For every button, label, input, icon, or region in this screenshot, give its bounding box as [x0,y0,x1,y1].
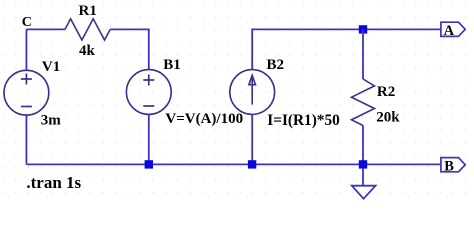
wire: R2 top lead [362,29,364,79]
junction at B2 bottom [248,160,256,168]
svg-text:4k: 4k [79,43,96,59]
V1 minus sign [21,106,32,108]
B1 plus sign [143,75,154,86]
svg-text:B1: B1 [163,57,181,73]
V1 plus sign [21,74,32,85]
behavioral source B1 circle [126,70,171,115]
svg-text:V1: V1 [42,59,60,75]
svg-text:.tran 1s: .tran 1s [26,173,81,192]
svg-text:3m: 3m [41,113,62,129]
net flag B [441,158,465,172]
junction at R2 bottom / ground [359,160,367,168]
svg-text:B: B [444,158,454,174]
junction at R2 top [359,25,367,33]
svg-text:B2: B2 [267,57,285,73]
wire: B1 bottom lead [148,114,150,164]
wire: B2 top lead up and right to A flag [252,29,441,69]
svg-text:V=V(A)/100: V=V(A)/100 [165,111,243,127]
svg-text:R1: R1 [79,3,97,19]
junction at B1 bottom [145,160,153,168]
wire: R2 bottom lead [362,126,364,165]
resistor R2 zigzag body [352,79,375,126]
svg-text:I=I(R1)*50: I=I(R1)*50 [267,112,340,129]
behavioral current source B2 circle [230,70,275,115]
svg-text:R2: R2 [377,84,395,100]
wire: ground lead [362,169,364,186]
wire: bottom rail [26,163,441,165]
resistor R1 zigzag body [65,19,110,40]
ground symbol [352,186,376,199]
svg-text:20k: 20k [376,109,400,125]
wire: B2 bottom lead [251,114,253,164]
B2 arrow [249,75,256,104]
svg-text:C: C [22,15,32,30]
svg-text:A: A [444,23,455,39]
net flag A [441,22,465,36]
B1 minus sign [143,105,154,107]
wire: top-left net C horizontal run [26,28,65,30]
wire: R1 right to B1 top corner [110,29,149,69]
voltage source V1 circle [4,70,49,115]
wire: V1 bottom lead [25,115,27,164]
wire: V1 top lead vertical [25,29,27,70]
